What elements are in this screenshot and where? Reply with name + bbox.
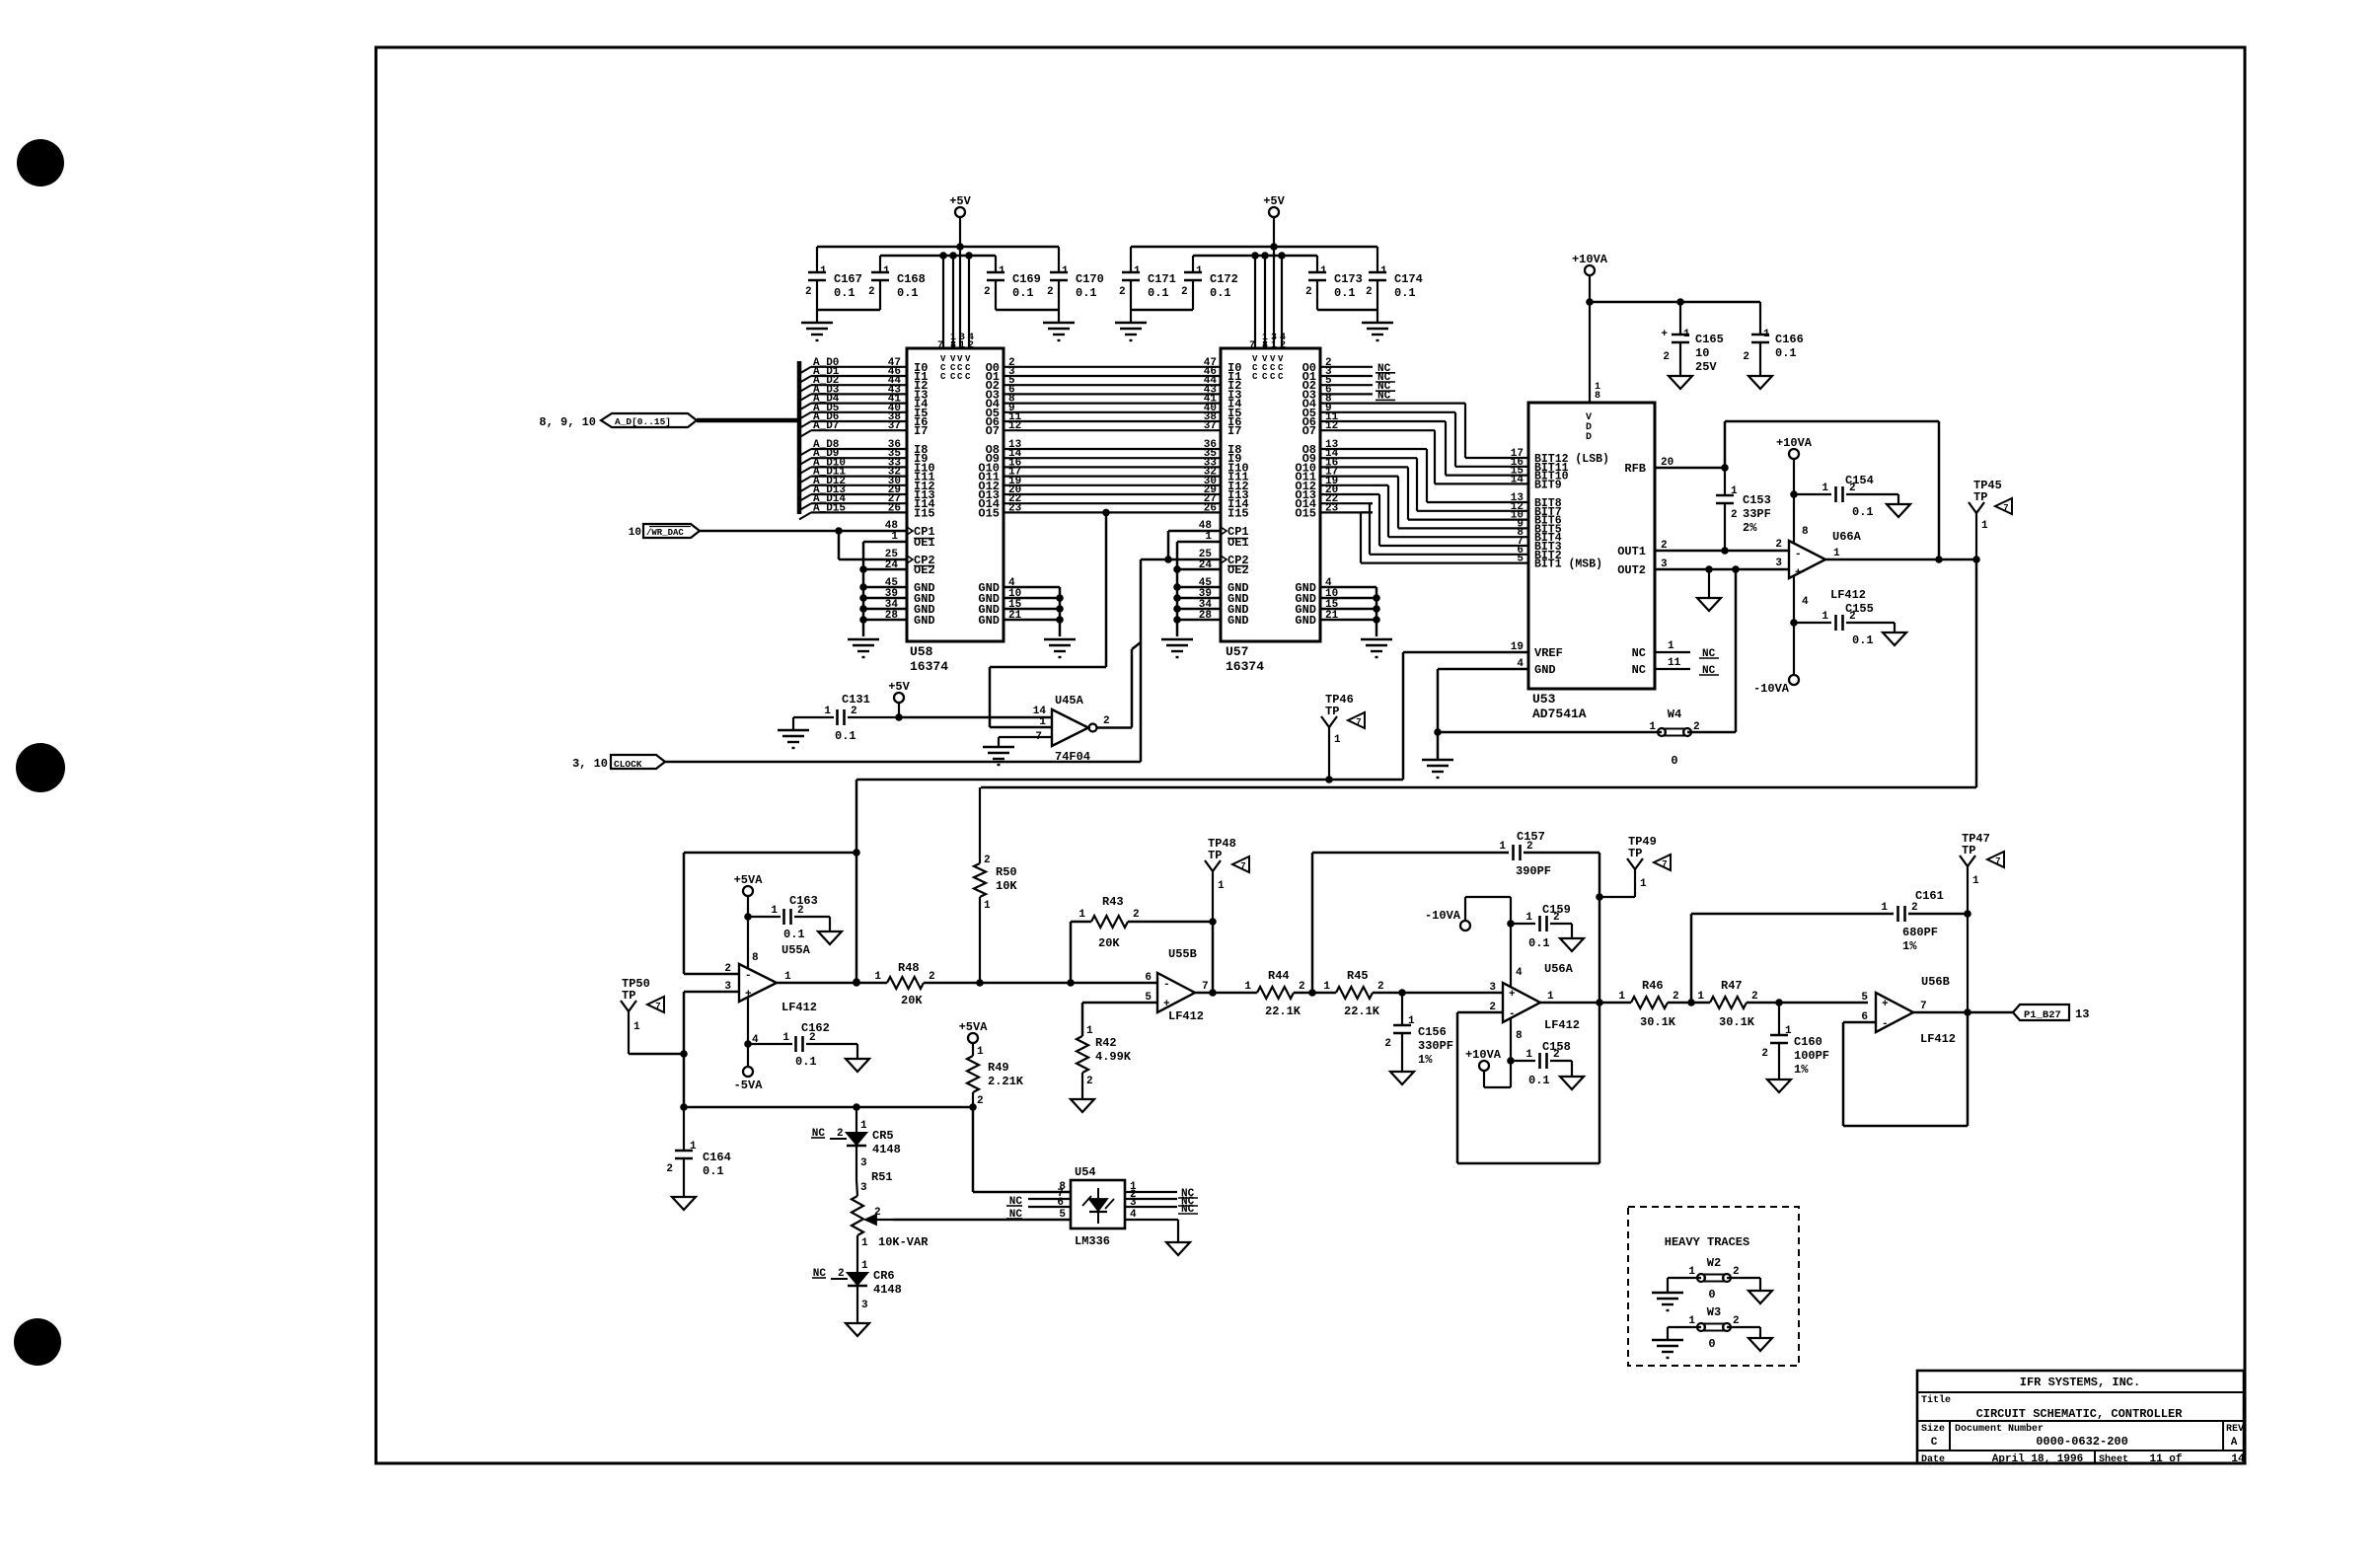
svg-text:A_D[0..15]: A_D[0..15]	[615, 416, 671, 427]
capacitor C157	[1499, 830, 1599, 878]
wire TP48 node to output	[1209, 922, 1217, 997]
svg-text:37: 37	[1204, 420, 1217, 432]
svg-text:TP: TP	[1973, 490, 1987, 504]
wire lower rail	[680, 1103, 977, 1111]
wire U57 O0 NC stub	[1320, 357, 1395, 375]
svg-text:0.1: 0.1	[1528, 936, 1550, 950]
svg-text:C161: C161	[1915, 889, 1944, 903]
wire U58 O10 to U57 I10	[1004, 457, 1221, 469]
resistor R46	[1618, 979, 1678, 1029]
svg-text:23: 23	[1325, 502, 1339, 514]
svg-text:2: 2	[805, 286, 812, 298]
svg-text:3: 3	[860, 1182, 867, 1194]
svg-text:A_D15: A_D15	[813, 502, 846, 514]
capacitor C153	[1716, 468, 1771, 551]
svg-text:0.1: 0.1	[795, 1055, 817, 1069]
wire /WR_DAC to U58 CP1	[700, 520, 907, 535]
wire U53 GND pin 4	[1438, 658, 1528, 670]
wire U53 OUT2 pin 3	[1655, 558, 1789, 573]
svg-text:C167: C167	[834, 272, 862, 286]
svg-text:1: 1	[1972, 875, 1979, 887]
svg-text:U54: U54	[1075, 1165, 1096, 1179]
wire U53 VREF pin 19	[1403, 641, 1528, 653]
svg-text:4: 4	[1516, 967, 1523, 979]
wire TP50 to U55A pin3	[629, 981, 739, 1107]
op-amp U55B	[1145, 947, 1208, 1023]
svg-text:I15: I15	[914, 506, 935, 520]
svg-text:-: -	[1882, 1018, 1889, 1030]
wire A_D8 to U58 I8	[799, 439, 907, 456]
flag sheet7 (TP46)	[1348, 712, 1365, 728]
svg-text:R51: R51	[871, 1170, 893, 1184]
svg-text:2: 2	[1663, 351, 1670, 363]
svg-text:C160: C160	[1794, 1035, 1822, 1049]
resistor R47	[1697, 979, 1757, 1029]
capacitor C155	[1794, 602, 1895, 647]
punch hole 1	[17, 139, 64, 186]
capacitor C165	[1661, 302, 1723, 376]
svg-text:-10VA: -10VA	[1753, 682, 1790, 696]
ground below C167	[801, 310, 833, 340]
wire U57 O12 to U53 BIT4	[1320, 476, 1528, 539]
svg-text:2: 2	[666, 1163, 673, 1175]
resistor R42	[1077, 1036, 1132, 1087]
wire U58 O3 to U57 I3	[1004, 384, 1221, 396]
wire U58 O6 to U57 I6	[1004, 411, 1221, 423]
svg-text:2: 2	[1119, 286, 1126, 298]
wire C157 loop riser	[1312, 853, 1509, 993]
svg-text:D: D	[1586, 432, 1592, 443]
svg-text:W4: W4	[1668, 707, 1681, 721]
power -10VA (U56A)	[1425, 897, 1515, 987]
wire W4 pin1 to GND net	[1438, 731, 1662, 734]
wire W2 pin1	[1668, 1278, 1701, 1293]
svg-text:1: 1	[1218, 880, 1225, 892]
svg-text:1: 1	[633, 1021, 640, 1033]
wire A_D12 to U58 I12	[799, 476, 907, 492]
ground U45A pin7	[983, 747, 1014, 765]
ground left of C131	[778, 717, 809, 748]
ground U58 right	[1044, 639, 1076, 657]
svg-text:2: 2	[1086, 1076, 1093, 1087]
capacitor C156	[1384, 993, 1453, 1072]
ground right of W2	[1748, 1291, 1772, 1303]
svg-text:O15: O15	[1295, 506, 1316, 520]
wire W2 pin2	[1727, 1278, 1760, 1291]
wire U57 O9 to U53 BIT7	[1320, 448, 1528, 513]
wire U55B pin5 to R42	[1082, 1003, 1157, 1037]
capacitor C131	[793, 693, 899, 743]
svg-text:11 of: 11 of	[2149, 1453, 2182, 1465]
svg-text:14: 14	[2231, 1453, 2245, 1465]
capacitor C162	[748, 1021, 857, 1069]
svg-text:0.1: 0.1	[783, 928, 805, 941]
svg-text:C158: C158	[1542, 1040, 1571, 1054]
svg-text:A: A	[2231, 1437, 2238, 1449]
wire U57 O7 to U53 BIT9	[1320, 420, 1528, 485]
wire U57 O5 to U53 BIT11	[1320, 403, 1528, 469]
power +10VA (U56A)	[1465, 1018, 1515, 1087]
svg-text:26: 26	[888, 502, 901, 514]
svg-text:0.1: 0.1	[1852, 505, 1874, 519]
wire to U57 CP1	[1168, 520, 1221, 559]
wire U55A output	[777, 979, 887, 987]
svg-text:1: 1	[1833, 548, 1840, 559]
svg-text:2: 2	[1384, 1038, 1391, 1050]
wire U57 O15 to U53 BIT1	[1320, 502, 1528, 564]
svg-text:10: 10	[1695, 346, 1709, 360]
ground below C156	[1390, 1072, 1414, 1084]
wire C157 right to output node	[1596, 853, 1603, 1003]
wire U54 pin 2 NC	[1125, 1189, 1198, 1208]
svg-text:330PF: 330PF	[1418, 1039, 1453, 1053]
svg-text:2: 2	[984, 855, 991, 866]
svg-text:U56B: U56B	[1921, 975, 1950, 989]
svg-text:U58: U58	[910, 644, 933, 659]
ground U57 left	[1161, 639, 1193, 657]
svg-text:CR6: CR6	[873, 1269, 895, 1283]
svg-text:0.1: 0.1	[834, 286, 855, 300]
wire CLOCK net	[665, 761, 1141, 764]
svg-text:1: 1	[1547, 991, 1554, 1003]
svg-text:100PF: 100PF	[1794, 1049, 1829, 1063]
power +10VA (U53)	[1572, 253, 1608, 302]
svg-text:2: 2	[1305, 286, 1312, 298]
svg-text:Document Number: Document Number	[1955, 1423, 2044, 1435]
jumper W2	[1688, 1256, 1739, 1302]
svg-text:2: 2	[1733, 1266, 1740, 1278]
wire A_D14 to U58 I14	[799, 493, 907, 510]
svg-text:2: 2	[1751, 991, 1758, 1003]
wire U53 GND riser	[1434, 669, 1442, 760]
punch hole 2	[16, 743, 65, 792]
resistor R48	[874, 961, 934, 1007]
svg-text:LF412: LF412	[1920, 1032, 1956, 1046]
svg-text:C174: C174	[1394, 272, 1423, 286]
wire U53 NC pin 1	[1655, 640, 1719, 660]
svg-text:3: 3	[1661, 558, 1668, 570]
svg-text:C170: C170	[1076, 272, 1104, 286]
flag sheet7 (TP48)	[1232, 856, 1249, 872]
punch hole 3	[14, 1318, 61, 1366]
wire A_D15 to U58 I15	[799, 502, 907, 519]
svg-text:GND: GND	[1227, 614, 1249, 628]
svg-text:8: 8	[1516, 1030, 1523, 1042]
svg-text:1%: 1%	[1902, 939, 1917, 953]
flag /WR_DAC	[629, 524, 700, 539]
diode CR6 4148	[812, 1235, 902, 1323]
capacitor C174	[1366, 247, 1423, 310]
pin label U58 OE2	[885, 559, 899, 571]
svg-text:I15: I15	[1227, 506, 1249, 520]
ground below C164	[672, 1197, 696, 1210]
svg-text:6: 6	[1145, 972, 1152, 984]
flag sheet7 (TP50)	[647, 997, 664, 1012]
svg-text:OUT2: OUT2	[1617, 563, 1646, 577]
wires U58 GND pins right	[1004, 577, 1064, 636]
svg-text:28: 28	[1199, 610, 1213, 622]
svg-text:LF412: LF412	[1544, 1018, 1580, 1032]
capacitor C168	[868, 256, 926, 310]
wire U54 pin 6 NC	[1006, 1197, 1071, 1221]
svg-text:+: +	[1661, 329, 1668, 340]
svg-text:C162: C162	[801, 1021, 830, 1035]
svg-text:3: 3	[860, 1157, 867, 1169]
svg-text:1: 1	[1822, 483, 1828, 494]
svg-text:2: 2	[977, 1095, 984, 1107]
ground right of C159	[1560, 924, 1584, 951]
wire U58 OE1	[863, 542, 907, 636]
svg-text:1: 1	[1078, 909, 1085, 921]
svg-text:1: 1	[1688, 1315, 1695, 1327]
wire C161 loop riser	[1691, 914, 1894, 1003]
svg-text:+10VA: +10VA	[1465, 1048, 1502, 1062]
wire U57 O4 to U53 BIT12	[1320, 394, 1528, 460]
bus A_D spine	[697, 361, 799, 514]
svg-text:2: 2	[1733, 1315, 1740, 1327]
wire U54 pin 3 NC	[1125, 1197, 1198, 1216]
capacitor C159	[1511, 903, 1572, 950]
flag sheet7 (TP49)	[1654, 855, 1671, 870]
svg-text:W3: W3	[1707, 1305, 1721, 1319]
pin numbers U58 VCC	[937, 333, 974, 351]
svg-text:TP: TP	[1628, 847, 1642, 860]
svg-text:1: 1	[874, 971, 881, 983]
wire R43 loop	[1071, 922, 1091, 983]
svg-text:10: 10	[629, 527, 641, 539]
svg-text:LM336: LM336	[1075, 1234, 1110, 1248]
svg-text:IFR SYSTEMS, INC.: IFR SYSTEMS, INC.	[2020, 1376, 2140, 1389]
svg-text:1: 1	[977, 1046, 984, 1058]
svg-text:TP: TP	[1962, 844, 1975, 857]
svg-text:1: 1	[1881, 902, 1888, 914]
flag sheet7 (TP47)	[1987, 852, 2004, 867]
svg-text:2: 2	[1047, 286, 1054, 298]
svg-text:1: 1	[1525, 912, 1532, 924]
wires U58 GND pins left	[859, 577, 907, 624]
wire R46-R47	[1668, 999, 1710, 1006]
svg-text:37: 37	[888, 420, 901, 432]
svg-text:C168: C168	[897, 272, 926, 286]
svg-text:1: 1	[1731, 485, 1738, 497]
svg-text:C: C	[940, 372, 946, 382]
svg-text:2: 2	[1911, 902, 1918, 914]
svg-text:30.1K: 30.1K	[1640, 1015, 1676, 1029]
svg-text:4148: 4148	[872, 1143, 901, 1156]
svg-text:1: 1	[1668, 640, 1674, 652]
svg-text:1: 1	[1525, 1049, 1532, 1061]
wire U57 OE2 stub	[1173, 565, 1221, 573]
svg-text:2: 2	[1743, 351, 1749, 363]
svg-text:1: 1	[1244, 981, 1251, 993]
svg-text:4148: 4148	[873, 1283, 902, 1297]
wire +5V rail A (left bank)	[817, 246, 1059, 249]
svg-text:1: 1	[1683, 329, 1690, 340]
wire R47 to U56B	[1747, 992, 1868, 1006]
op-amp U56B	[1861, 975, 1956, 1046]
wire U58 O2 to U57 I2	[1004, 375, 1221, 387]
svg-text:1: 1	[883, 265, 890, 277]
wires U57 GND pins left	[1173, 577, 1221, 624]
svg-text:-: -	[1795, 549, 1802, 560]
connector P1_B27 pin 13	[2013, 1005, 2089, 1021]
svg-text:C155: C155	[1845, 602, 1874, 616]
ground below C160	[1767, 1079, 1791, 1092]
svg-text:1: 1	[1499, 841, 1506, 853]
svg-text:0.1: 0.1	[1148, 286, 1169, 300]
ground below U53 GND	[1422, 760, 1453, 778]
wire U54 pin 7 NC	[1006, 1188, 1071, 1208]
svg-text:1: 1	[1640, 878, 1647, 890]
svg-text:1: 1	[1785, 1025, 1792, 1037]
svg-text:1: 1	[784, 971, 791, 983]
svg-text:16374: 16374	[1226, 659, 1264, 674]
test point TP46	[1321, 693, 1354, 780]
wire U66A feedback	[1725, 421, 1939, 559]
svg-text:TP: TP	[1325, 705, 1339, 718]
svg-text:C172: C172	[1210, 272, 1238, 286]
svg-text:4.99K: 4.99K	[1095, 1050, 1132, 1064]
svg-text:HEAVY TRACES: HEAVY TRACES	[1665, 1235, 1749, 1249]
svg-text:Sheet: Sheet	[2099, 1453, 2128, 1465]
wire U55A V- pin 4	[744, 998, 752, 1067]
capacitor C172	[1181, 256, 1238, 310]
wire U54 pin 1 NC	[1125, 1181, 1198, 1200]
test point TP50	[621, 977, 650, 1054]
wire U58 O15 to U57 I15	[1004, 502, 1221, 516]
ground below CR6	[846, 1323, 869, 1336]
wire +5V rail B (right bank)	[1193, 255, 1317, 258]
wire U57 O3 NC stub	[1320, 384, 1395, 402]
capacitor C170	[1047, 247, 1104, 310]
wire U57 O10 to U53 BIT6	[1320, 457, 1528, 521]
op-amp U55A	[724, 943, 817, 1046]
svg-text:C: C	[950, 372, 956, 382]
flag sheet7 (TP45)	[1995, 498, 2012, 514]
svg-text:7: 7	[2003, 503, 2008, 513]
resistor R45	[1323, 969, 1383, 1018]
ground left of W2	[1652, 1293, 1683, 1310]
wire +5V rail A (right bank)	[1131, 246, 1377, 249]
IC U53 AD7541A	[1528, 403, 1655, 721]
svg-text:7: 7	[1356, 717, 1361, 727]
IC U57 16374	[1221, 348, 1320, 674]
svg-text:VREF: VREF	[1534, 646, 1563, 660]
power +5VA (U55A)	[734, 873, 764, 968]
svg-text:/WR_DAC: /WR_DAC	[646, 528, 684, 538]
wire U58 O5 to U57 I5	[1004, 403, 1221, 414]
svg-text:LF412: LF412	[781, 1001, 817, 1014]
svg-text:1: 1	[1763, 329, 1770, 340]
ground below C165	[1669, 376, 1692, 389]
wire C167-C168 bottom	[817, 309, 880, 312]
svg-text:7: 7	[1920, 1001, 1927, 1012]
wire U56A output	[1540, 999, 1631, 1006]
svg-text:C156: C156	[1418, 1025, 1447, 1039]
wire U53 OUT1 pin 2	[1655, 540, 1789, 555]
svg-text:R45: R45	[1347, 969, 1369, 983]
wire U58 O8 to U57 I8	[1004, 439, 1221, 451]
ground U57 right	[1361, 639, 1392, 657]
wire U56A feedback	[1457, 1003, 1599, 1163]
wire C171-C172 bottom	[1131, 309, 1193, 312]
svg-text:1: 1	[771, 905, 778, 917]
IC U54 LM336	[1071, 1165, 1125, 1248]
wire U58 O9 to U57 I9	[1004, 448, 1221, 460]
wire R48 to U55B	[924, 972, 1157, 987]
wire U58 VCC pin 7	[939, 252, 947, 348]
wire U58 O0 to U57 I0	[1004, 357, 1221, 369]
wire U58 OE2 stub	[859, 565, 907, 573]
ground right of C162	[846, 1044, 869, 1072]
svg-text:C169: C169	[1012, 272, 1041, 286]
wire U56B output	[1913, 1008, 2013, 1016]
capacitor C163	[748, 894, 830, 941]
wire R42 to ground	[1071, 1073, 1094, 1112]
drawing border frame	[376, 47, 2245, 1463]
svg-text:I7: I7	[914, 424, 928, 438]
svg-text:C131: C131	[842, 693, 870, 707]
svg-text:C: C	[1252, 372, 1258, 382]
resistor R44	[1244, 969, 1304, 1018]
wire U57 O8 to U53 BIT8	[1320, 439, 1528, 504]
svg-text:C164: C164	[703, 1151, 731, 1164]
svg-text:1: 1	[1380, 265, 1387, 277]
wire U58 O4 to U57 I4	[1004, 394, 1221, 406]
ground below U54 pin 4	[1166, 1242, 1190, 1255]
svg-text:LF412: LF412	[1830, 588, 1866, 602]
svg-text:TP: TP	[622, 989, 635, 1003]
wire U55A out to VREF/TP46	[856, 776, 1403, 783]
svg-text:1: 1	[999, 265, 1005, 277]
svg-text:BIT9: BIT9	[1534, 479, 1562, 491]
svg-text:-5VA: -5VA	[734, 1079, 764, 1092]
ground U58 left	[848, 639, 879, 657]
svg-text:+: +	[1882, 999, 1889, 1010]
svg-text:3: 3	[861, 1300, 868, 1311]
svg-text:O15: O15	[978, 506, 1000, 520]
svg-text:2: 2	[874, 1207, 881, 1219]
svg-text:C153: C153	[1743, 493, 1771, 507]
svg-text:U53: U53	[1532, 692, 1556, 707]
test point TP45	[1969, 479, 2002, 559]
wire U57 O13 to U53 BIT3	[1320, 484, 1528, 548]
ground right of W3	[1748, 1338, 1772, 1351]
wire A_D13 to U58 I13	[799, 484, 907, 501]
svg-text:2: 2	[1299, 981, 1305, 993]
svg-text:2: 2	[1775, 539, 1782, 551]
power -10VA (U66A)	[1753, 675, 1799, 696]
svg-text:2%: 2%	[1743, 521, 1757, 535]
svg-text:1: 1	[820, 265, 827, 277]
svg-text:10K-VAR: 10K-VAR	[878, 1235, 929, 1249]
svg-text:3, 10: 3, 10	[572, 757, 608, 771]
svg-text:C157: C157	[1517, 830, 1545, 844]
svg-text:26: 26	[1204, 502, 1217, 514]
wires U57 GND pins right	[1320, 577, 1380, 636]
svg-text:20K: 20K	[901, 994, 923, 1007]
wire +5V to U45A pin 14	[899, 706, 1052, 717]
capacitor C164	[666, 1107, 730, 1197]
svg-text:23: 23	[1008, 502, 1022, 514]
svg-text:12: 12	[1008, 420, 1021, 432]
svg-text:1: 1	[1086, 1025, 1093, 1037]
svg-text:8: 8	[1802, 526, 1809, 538]
svg-text:C: C	[965, 372, 971, 382]
svg-text:U56A: U56A	[1544, 962, 1574, 976]
svg-text:0: 0	[1708, 1288, 1715, 1302]
wire A_D4 to U58 I4	[799, 394, 907, 410]
